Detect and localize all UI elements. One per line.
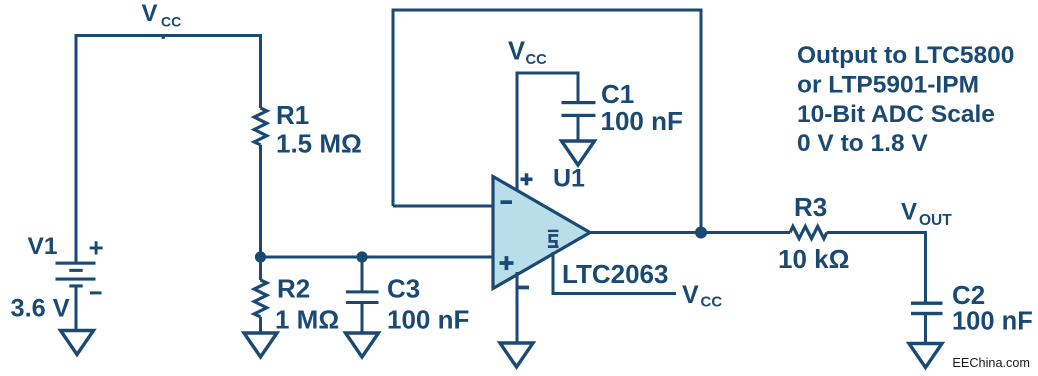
- wire VCC supply to op-amp and C1: [517, 73, 578, 191]
- op-amp + supply mark (top): [521, 173, 533, 185]
- resistor R1: [254, 108, 267, 145]
- svg-text:3.6 V: 3.6 V: [11, 295, 70, 323]
- svg-text:Output to LTC5800: Output to LTC5800: [797, 42, 1014, 69]
- wire R3 to C2: [827, 233, 926, 302]
- capacitor C1: [562, 101, 596, 117]
- svg-text:V: V: [142, 0, 158, 27]
- wire V1 bottom lead: [75, 285, 78, 331]
- ground (R2): [244, 333, 277, 357]
- voltage source V1 plates: [56, 262, 96, 288]
- wire C3 top lead: [361, 257, 364, 291]
- svg-text:U1: U1: [553, 165, 585, 193]
- svg-text:100 nF: 100 nF: [952, 308, 1033, 336]
- svg-text:1 MΩ: 1 MΩ: [275, 305, 339, 335]
- svg-text:100 nF: 100 nF: [387, 305, 469, 335]
- svg-text:V1: V1: [28, 233, 58, 260]
- svg-text:C1: C1: [601, 79, 634, 109]
- svg-text:C2: C2: [952, 280, 985, 310]
- ground (C1): [562, 141, 595, 165]
- label - (battery): [90, 291, 102, 294]
- wire inverting input: [393, 205, 493, 208]
- op-amp - supply mark (bottom): [517, 286, 529, 290]
- wire C2 bottom lead: [924, 315, 927, 344]
- op-amp U1 triangle: [493, 177, 590, 289]
- svg-text:10 kΩ: 10 kΩ: [778, 244, 849, 274]
- svg-text:LTC2063: LTC2063: [562, 259, 668, 289]
- svg-text:10-Bit ADC Scale: 10-Bit ADC Scale: [797, 101, 995, 128]
- node A junction dot: [255, 251, 266, 262]
- ground (op-amp): [500, 343, 533, 367]
- svg-text:V: V: [682, 281, 699, 309]
- resistor R2: [254, 280, 267, 317]
- node B junction dot: [356, 251, 367, 262]
- wire R2 top lead: [259, 257, 262, 280]
- svg-text:OUT: OUT: [919, 212, 952, 229]
- svg-text:V: V: [901, 199, 917, 226]
- ground (battery): [61, 331, 94, 355]
- label VCC (op-amp supply): [508, 38, 547, 69]
- svg-text:1.5 MΩ: 1.5 MΩ: [276, 129, 362, 159]
- wire C3 bottom lead: [361, 304, 364, 333]
- label VOUT: [901, 199, 952, 230]
- wire R2 bottom lead: [259, 317, 262, 333]
- wire op-amp negative supply: [516, 272, 519, 343]
- wire R1 top lead: [259, 34, 262, 108]
- svg-text:CC: CC: [161, 14, 181, 30]
- wire C1 bottom lead: [577, 117, 580, 141]
- op-amp inverting input mark: [501, 200, 513, 204]
- node OUT junction dot: [695, 227, 707, 239]
- op-amp SHDN pin glyph (S with overbar): [548, 230, 559, 248]
- svg-text:100 nF: 100 nF: [601, 106, 683, 136]
- svg-text:CC: CC: [701, 294, 723, 311]
- wire feedback top loop: [393, 10, 701, 232]
- wire R1 bottom lead: [259, 145, 262, 257]
- wire V1 top lead: [75, 34, 78, 262]
- svg-text:or LTP5901-IPM: or LTP5901-IPM: [797, 71, 979, 98]
- wire VCC top rail: [75, 34, 261, 37]
- wire SHDN to VCC: [553, 252, 676, 294]
- ground (C2): [909, 344, 942, 368]
- svg-text:V: V: [508, 38, 525, 66]
- op-amp non-inverting input mark: [500, 256, 514, 270]
- svg-text:C3: C3: [387, 274, 420, 304]
- capacitor C2: [911, 302, 943, 316]
- svg-text:+: +: [89, 233, 104, 263]
- svg-text:0 V to 1.8 V: 0 V to 1.8 V: [797, 130, 928, 157]
- label VCC (top left): [142, 0, 182, 39]
- capacitor C3: [346, 290, 379, 304]
- label VCC (SHDN): [682, 281, 722, 311]
- ground (C3): [346, 333, 379, 357]
- wire op-amp output: [590, 231, 790, 234]
- resistor R3: [790, 226, 827, 238]
- annotation text block: [797, 42, 1014, 157]
- wire mid rail to op-amp + input: [261, 256, 494, 259]
- svg-text:EEChina.com: EEChina.com: [952, 356, 1030, 370]
- svg-text:R2: R2: [277, 274, 310, 304]
- svg-text:CC: CC: [526, 52, 548, 68]
- svg-text:R3: R3: [794, 192, 827, 222]
- svg-text:R1: R1: [276, 100, 309, 130]
